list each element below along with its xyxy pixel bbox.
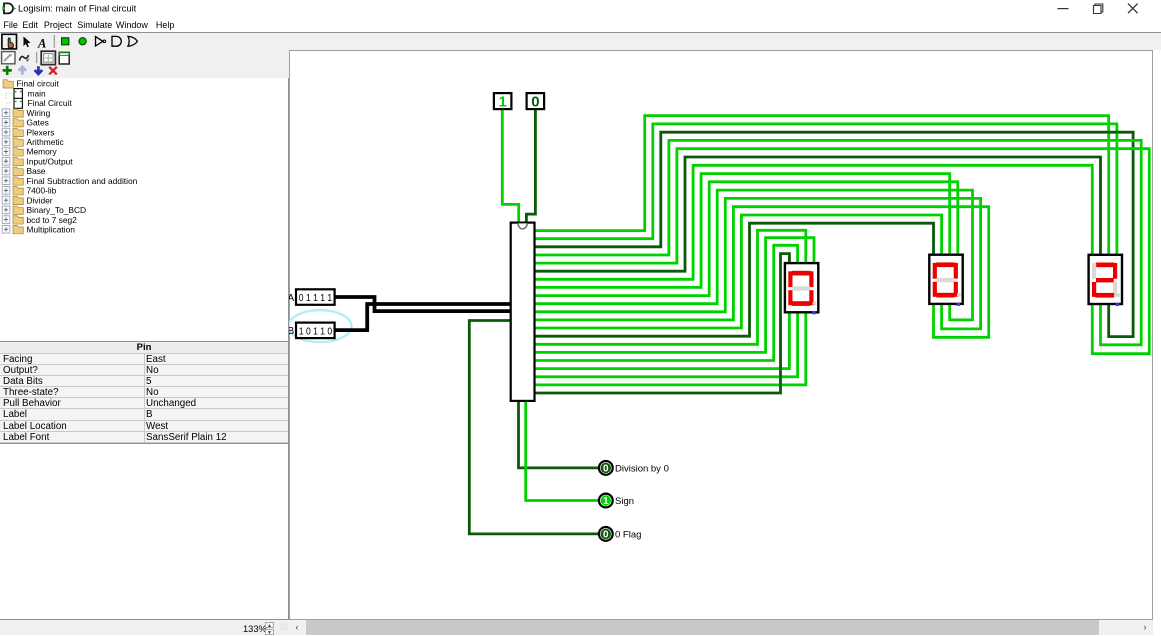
- toolbar: edit/select tool: [24, 37, 31, 48]
- wire Division by 0 net: [519, 401, 599, 468]
- project toolbar: remove: [49, 67, 57, 75]
- svg-text:Gates: Gates: [27, 118, 49, 128]
- svg-text:1: 1: [499, 94, 507, 111]
- svg-text:Plexers: Plexers: [27, 127, 55, 137]
- wire pin10: [535, 190, 973, 320]
- wire from top pin 0: [526, 109, 535, 223]
- svg-text:main: main: [28, 88, 46, 98]
- window maximize button: [1094, 4, 1103, 14]
- svg-text:Divider: Divider: [27, 195, 53, 205]
- toolbar: poke tool (selected): [2, 34, 17, 49]
- tree library node: Multiplication: [2, 222, 75, 234]
- wire pin20: [535, 313, 806, 386]
- wire pin12: [535, 207, 989, 338]
- toolbar separator: [36, 52, 38, 63]
- input pin B value box: [296, 323, 335, 339]
- svg-text:Multiplication: Multiplication: [27, 225, 76, 235]
- toolbar: AND gate tool: [112, 36, 121, 46]
- input pin top-1: [494, 93, 512, 111]
- svg-text:7400-lib: 7400-lib: [27, 186, 57, 196]
- left panel: [0, 78, 289, 619]
- output pin Sign: [599, 494, 613, 508]
- toolbar: NOT gate tool: [96, 37, 104, 46]
- svg-text:Binary_To_BCD: Binary_To_BCD: [27, 205, 87, 215]
- wire pin7: [535, 166, 1093, 280]
- appearance view button: [59, 52, 69, 64]
- output pin Division by 0: [599, 461, 613, 475]
- tree library node: bcd to 7 seg2: [2, 213, 77, 225]
- wire pin8: [535, 174, 950, 288]
- svg-text:A: A: [37, 37, 46, 51]
- tree circuit node: main: [6, 83, 46, 98]
- svg-text:0 Flag: 0 Flag: [615, 530, 641, 541]
- svg-text:bcd to 7 seg2: bcd to 7 seg2: [27, 215, 78, 225]
- canvas area: [289, 50, 1153, 620]
- toolbar: OR gate tool: [128, 36, 137, 46]
- svg-text:Input/Output: Input/Output: [27, 157, 74, 167]
- tree library node: Final Subtraction and addition: [2, 174, 137, 186]
- bus wire from pin A: [335, 297, 511, 311]
- tree library node: Memory: [2, 145, 57, 157]
- wire pin11: [535, 199, 981, 330]
- window minimize button: [1058, 8, 1069, 10]
- wire pin4: [535, 141, 1142, 345]
- wire pin16: [535, 238, 815, 353]
- explorer toolbar: simulation view: [20, 55, 29, 61]
- wire pin15: [535, 231, 806, 345]
- left explorer toolbar band: [0, 50, 289, 78]
- circuit canvas: [289, 50, 1152, 619]
- svg-text:0 1 1 1 1: 0 1 1 1 1: [299, 292, 333, 304]
- tree library node: Gates: [2, 115, 49, 127]
- tree library node: Divider: [2, 193, 53, 205]
- svg-text:0: 0: [531, 94, 539, 111]
- tree library node: 7400-lib: [2, 183, 56, 195]
- 7-segment display D2 digit 0: [929, 255, 962, 306]
- svg-text:Final Circuit: Final Circuit: [28, 98, 73, 108]
- toolbar separator: [53, 35, 55, 48]
- wire pin21: [535, 254, 790, 393]
- svg-text:Memory: Memory: [27, 147, 58, 157]
- right gutter: [1153, 50, 1161, 635]
- wire pin18: [535, 313, 790, 369]
- wire 0 Flag net: [469, 321, 598, 534]
- tree library node: Wiring: [2, 106, 50, 118]
- layout view button (selected): [41, 51, 55, 64]
- toolbar: input pin tool: [62, 38, 69, 45]
- main toolbar band: [0, 32, 1161, 51]
- horizontal scrollbar: [289, 620, 1153, 635]
- 7-segment display D1 digit 0: [785, 263, 818, 314]
- subcircuit U1 Final Circuit: [511, 223, 535, 401]
- svg-text:Wiring: Wiring: [27, 108, 51, 118]
- wire Sign net: [526, 401, 599, 501]
- svg-text:1: 1: [603, 496, 609, 507]
- tree library node: Input/Output: [2, 154, 73, 166]
- 7-segment display D3 digit 2: [1089, 255, 1122, 306]
- Logisim app icon: [4, 3, 13, 13]
- svg-text:A: A: [289, 293, 295, 304]
- wire pin2: [535, 124, 1117, 255]
- svg-text:0: 0: [603, 530, 609, 541]
- svg-text:1 0 1 1 0: 1 0 1 1 0: [299, 326, 333, 338]
- svg-text:Final Subtraction and addition: Final Subtraction and addition: [27, 176, 138, 186]
- toolbar: output pin tool: [79, 38, 86, 45]
- input pin A value box: [296, 290, 335, 306]
- tree library node: Base: [2, 164, 46, 176]
- wire from top pin 1: [502, 109, 518, 223]
- wire pin19: [535, 313, 798, 378]
- bus wire from pin B: [335, 304, 511, 330]
- tree library node: Plexers: [2, 125, 54, 137]
- wire pin17: [535, 246, 798, 361]
- svg-text:Logisim: main of Final circuit: Logisim: main of Final circuit: [18, 2, 137, 13]
- svg-text:Base: Base: [27, 166, 46, 176]
- project toolbar: add: [3, 66, 12, 75]
- wire pin1: [535, 116, 1109, 255]
- wire pin14: [535, 224, 934, 337]
- output pin 0 Flag: [599, 527, 613, 541]
- svg-text:Division by 0: Division by 0: [615, 464, 669, 475]
- wire pin9: [535, 182, 958, 296]
- tree library node: Binary_To_BCD: [2, 203, 86, 215]
- svg-text:Arithmetic: Arithmetic: [27, 137, 64, 147]
- wire pin5: [535, 149, 1150, 354]
- svg-text:Final circuit: Final circuit: [17, 79, 60, 89]
- tree library node: Arithmetic: [2, 135, 64, 147]
- title bar: [0, 0, 1161, 17]
- svg-text:B: B: [289, 327, 295, 338]
- left status bar with zoom control: [0, 619, 289, 635]
- input pin top-0: [527, 93, 545, 111]
- svg-text:0: 0: [603, 464, 609, 475]
- explorer toolbar: toolbox view: [2, 52, 15, 64]
- project toolbar: move down: [35, 66, 43, 74]
- wire pin6: [535, 157, 1101, 271]
- svg-text:Sign: Sign: [615, 496, 634, 507]
- tree root folder: Final circuit: [3, 79, 60, 89]
- tree circuit node: Final Circuit: [6, 93, 72, 108]
- menu bar: [0, 17, 1161, 32]
- wire pin13: [535, 215, 942, 328]
- window close button: [1128, 4, 1138, 14]
- wire pin3: [535, 133, 1134, 337]
- project toolbar: move up (disabled): [19, 67, 27, 75]
- selection halo around pin B: [289, 310, 352, 342]
